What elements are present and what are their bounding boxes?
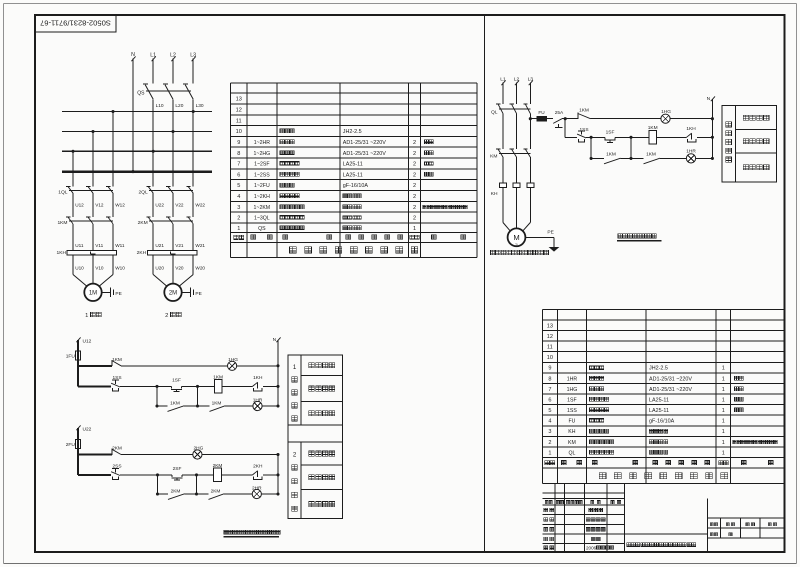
svg-text:U12: U12 [75,203,84,208]
svg-text:2KH: 2KH [137,250,147,256]
wire rung2 b [181,385,214,388]
svg-text:~: ~ [515,242,518,248]
svg-text:W21: W21 [195,243,205,248]
svg-text:1KM: 1KM [212,400,222,406]
svg-text:1M: 1M [89,291,97,297]
svg-text:2: 2 [413,183,416,189]
wire rung1 [121,365,228,367]
svg-text:2: 2 [293,452,297,459]
wire rung3 b [224,493,252,495]
wire 1 KH-motor [73,255,113,286]
svg-text:V22: V22 [175,203,184,208]
contactor 2KM [138,217,194,226]
svg-text:AD1-25/31 ~220V: AD1-25/31 ~220V [649,387,692,393]
svg-text:FU: FU [538,110,545,115]
bus N (thick) [62,170,212,172]
wire 1 branch feeders [73,112,113,187]
svg-text:8: 8 [237,151,240,157]
wire rung2 a [586,136,605,139]
wire rung1 to N [237,365,278,367]
svg-text:LA25-11: LA25-11 [649,408,669,414]
wire rung2 c [221,474,252,476]
svg-text:12: 12 [547,334,553,340]
wire rung3 to N [261,493,278,495]
wire L2 drop [171,56,175,186]
coil 1KM (fan) [648,125,658,144]
junction dots on buses [71,110,194,173]
svg-text:1: 1 [722,408,725,414]
wire 1 QL-KM [73,193,113,217]
svg-text:1HR: 1HR [686,149,696,155]
ground PE (2M) [182,288,202,297]
wire left bus 1 [77,340,79,386]
svg-text:1KM: 1KM [579,107,589,113]
labels U21 V21 W21 [155,243,205,248]
svg-text:1: 1 [293,364,297,371]
breaker 2QL [138,186,193,195]
svg-text:1QL: 1QL [58,189,68,195]
breaker QL (fan) [491,104,530,116]
labels U10 V10 W10 [75,265,125,270]
svg-text:2KM: 2KM [138,220,148,226]
wire rung3 a [621,157,644,159]
svg-text:3: 3 [237,205,240,211]
labels U20 V20 W20 [155,265,205,270]
coil 2KM [213,463,223,482]
svg-text:1SS: 1SS [567,408,577,414]
svg-text:PE: PE [547,230,553,236]
svg-text:1KM: 1KM [57,220,67,226]
svg-text:2: 2 [548,440,551,446]
drawing number box S0502-8231/9711-67 [35,15,116,32]
component table (fan control box) [542,310,784,484]
contact 1KM NC (HG rung) [578,107,591,119]
junction drops to rung3 [156,475,198,496]
wire left bus 2 [77,428,79,475]
start button 1SF (fan) [605,130,616,143]
svg-text:4: 4 [548,419,551,425]
svg-text:U12: U12 [83,339,92,345]
wire rung2 c [222,385,253,387]
node L1 [150,53,156,59]
svg-text:3: 3 [548,429,551,435]
wire rung3 to N [696,157,713,159]
svg-text:W20: W20 [195,265,205,270]
svg-text:2QL: 2QL [138,189,148,195]
svg-text:1SF: 1SF [172,378,181,384]
svg-text:LA25-11: LA25-11 [649,397,669,403]
node N [131,52,135,58]
svg-text:V21: V21 [175,243,184,248]
svg-text:JH2-2.5: JH2-2.5 [343,129,362,135]
svg-text:2: 2 [413,172,416,178]
svg-text:1~2KH: 1~2KH [254,194,270,200]
svg-text:11: 11 [236,118,242,124]
svg-text:U11: U11 [75,243,84,248]
svg-text:W10: W10 [115,265,125,270]
svg-text:1: 1 [722,366,725,372]
svg-text:2: 2 [413,216,416,222]
svg-text:1~2FU: 1~2FU [254,183,270,189]
svg-text:1SF: 1SF [606,130,615,136]
motor 2M [164,284,181,301]
wire rung3 to N [262,405,278,407]
svg-text:1FU: 1FU [66,354,76,360]
svg-text:U22: U22 [155,203,164,208]
svg-text:AD1-25/31 ~220V: AD1-25/31 ~220V [649,376,692,382]
svg-text:25A: 25A [555,110,564,116]
svg-text:2006: 2006 [586,546,597,551]
svg-text:1~2SS: 1~2SS [254,172,270,178]
wire 2 KM-KH [153,224,193,251]
svg-text:N: N [707,96,711,102]
labels U11 V11 W11 [75,243,125,248]
svg-text:7: 7 [237,162,240,168]
svg-text:QS: QS [137,91,145,97]
wire rung2 b [615,136,649,139]
wire 2 branch feeders [153,185,193,187]
label L20 [175,103,183,109]
svg-text:13: 13 [547,323,553,329]
disconnect switch QS [137,84,193,99]
wire 2 QL-KM [153,193,193,217]
svg-text:1: 1 [722,440,725,446]
wire rung2 to N [697,136,713,138]
svg-text:1HG: 1HG [661,109,671,115]
wire rung2 to N [263,474,278,476]
wire rung3 b [660,157,686,159]
svg-text:KM: KM [568,440,576,446]
node L1 (fan) [500,77,506,83]
svg-text:1KM: 1KM [648,125,658,131]
stop button 1SS (fan) [565,127,588,142]
svg-text:10: 10 [547,355,553,361]
fuse 1FU [66,351,81,360]
svg-text:2KH: 2KH [253,463,263,469]
wire rung1 [121,454,193,456]
lamp 2HG [193,446,204,460]
svg-text:LA25-11: LA25-11 [343,172,363,178]
svg-text:AD1-25/31 ~220V: AD1-25/31 ~220V [343,151,386,157]
wire rung3 b [225,405,253,407]
svg-text:12: 12 [236,108,242,114]
label 25A [555,110,564,116]
svg-text:LA25-11: LA25-11 [343,162,363,168]
title block [542,484,784,552]
node U22 [76,425,91,432]
thermal relay 2KH [137,250,197,256]
node U12 [76,337,91,344]
labels U22 V22 W22 [155,203,205,208]
start button 2SF [172,466,183,480]
svg-text:JH2-2.5: JH2-2.5 [649,366,668,372]
svg-text:U22: U22 [83,427,92,433]
wire fan KH-motor [503,188,530,231]
motor 1M [84,284,101,301]
caption pumps control schematic title [224,530,281,537]
svg-text:1SS: 1SS [112,375,121,381]
svg-text:W22: W22 [195,203,205,208]
wire rung2 to N [263,385,278,387]
svg-text:1: 1 [722,397,725,403]
lamp 1HG (fan) [661,109,671,123]
svg-text:5: 5 [237,183,240,189]
bus L1 phase [62,150,212,152]
thermal relay 1KH [56,250,116,256]
wire 2 KH-motor [153,255,193,286]
svg-text:S0502-8231/9711-67: S0502-8231/9711-67 [40,19,111,28]
stop button 1SS [78,375,122,391]
caption fan loads [491,250,549,254]
contactor 1KM [57,217,113,226]
svg-text:2KM: 2KM [112,446,122,452]
contact 1KM self-hold [157,400,184,411]
svg-text:2SF: 2SF [173,466,182,472]
indication boxes (pumps) [288,355,342,519]
wire L1 drop [152,56,156,186]
svg-text:PE: PE [115,291,121,297]
svg-text:2KM: 2KM [213,463,223,469]
svg-text:7: 7 [548,387,551,393]
thermal contact 1KH (fan) [686,126,696,142]
svg-text:FU: FU [568,419,575,425]
ground PE (1M) [102,288,122,297]
svg-text:1: 1 [722,450,725,456]
svg-text:2FU: 2FU [66,442,76,448]
wire rung1 to N [670,118,712,120]
svg-text:W12: W12 [115,203,125,208]
svg-text:6: 6 [548,397,551,403]
svg-text:1~2HR: 1~2HR [254,140,271,146]
svg-text:1: 1 [237,226,240,232]
svg-text:L2: L2 [170,53,176,59]
svg-text:4: 4 [237,194,240,200]
sheet divider line [483,15,485,552]
bus L3 phase [62,111,212,113]
svg-text:1~2KM: 1~2KM [254,205,271,211]
svg-text:1: 1 [722,419,725,425]
svg-text:9: 9 [237,140,240,146]
lamp 2HR [252,486,262,499]
svg-text:1HG: 1HG [567,387,578,393]
wire fan feeders top [501,80,533,104]
svg-text:1: 1 [413,226,416,232]
isolator blade after fuse [547,119,563,128]
svg-text:2HG: 2HG [193,446,203,452]
svg-text:V11: V11 [95,243,103,248]
svg-text:1: 1 [722,376,725,382]
thermal contact 2KH [253,463,263,479]
svg-text:1SF: 1SF [567,397,577,403]
svg-text:V20: V20 [175,265,184,270]
svg-text:L1: L1 [150,53,156,59]
svg-text:2M: 2M [169,291,177,297]
node N right bus 2 [276,453,279,496]
svg-text:1SS: 1SS [579,127,588,133]
svg-text:U10: U10 [75,265,84,270]
svg-text:1: 1 [722,429,725,435]
svg-text:L10: L10 [156,103,164,109]
caption pump 2 [165,312,181,318]
motor M (fan) [508,228,526,247]
svg-text:V12: V12 [95,203,104,208]
svg-text:U21: U21 [155,243,164,248]
wire rung3 a [185,493,209,495]
junction drops to rung3 [155,386,199,407]
node N (fan) [707,96,715,160]
wire 1 KM-KH [73,224,113,251]
contact 1KM self-hold (fan) [591,151,620,163]
svg-text:2: 2 [413,140,416,146]
svg-text:gF-16/10A: gF-16/10A [649,419,675,425]
svg-text:L3: L3 [190,53,196,59]
breaker 1QL [58,186,113,195]
svg-text:AD1-25/31 ~220V: AD1-25/31 ~220V [343,140,386,146]
contact 2KM run [209,488,225,499]
svg-text:1KM: 1KM [170,400,180,406]
node L2 (fan) [514,77,520,83]
svg-text:W11: W11 [115,243,125,248]
svg-text:1~2HG: 1~2HG [254,151,271,157]
svg-text:1KM: 1KM [606,151,616,157]
svg-text:2KM: 2KM [171,488,181,494]
junction control feed [562,117,578,137]
svg-text:V10: V10 [95,265,104,270]
svg-text:PE: PE [195,291,201,297]
fuse 2FU [66,440,81,449]
node L3 (fan) [528,77,534,83]
svg-text:1KM: 1KM [112,357,122,363]
caption pump 1 [85,312,101,318]
svg-text:2: 2 [413,151,416,157]
contact 2KM self-hold [158,488,185,499]
svg-text:L20: L20 [175,103,183,109]
svg-text:11: 11 [547,345,553,351]
node N right bus 1 [273,337,281,407]
wire fan QL-KM [503,114,530,150]
contact 1KM run [210,400,226,411]
wire rung3 a [184,405,210,407]
wire rung1 to N [202,454,278,456]
svg-text:1: 1 [85,313,88,319]
stop button 2SS [78,464,122,480]
svg-text:2: 2 [413,162,416,168]
svg-text:QL: QL [568,450,575,456]
svg-text:2: 2 [165,313,168,319]
svg-text:1KM: 1KM [213,374,223,380]
wire N drop [131,56,135,171]
svg-text:2HR: 2HR [252,486,262,492]
fuse FU 25A [529,110,547,121]
wire rung2 a [120,473,172,476]
svg-text:1HR: 1HR [253,398,263,404]
svg-text:5: 5 [548,408,551,414]
svg-text:1KM: 1KM [646,151,656,157]
contact 1KM run (fan) [644,151,661,163]
component table (pump control box) [231,83,477,258]
svg-text:2SS: 2SS [112,464,121,470]
contactor KM (fan) [490,149,530,159]
svg-text:6: 6 [237,172,240,178]
lamp 1HR [253,398,263,411]
svg-text:KH: KH [491,191,498,197]
wire rung2 b [182,473,214,476]
svg-text:1: 1 [722,387,725,393]
svg-text:1HR: 1HR [567,376,578,382]
svg-text:M: M [513,233,519,242]
svg-text:2: 2 [413,205,416,211]
thermal contact 1KH [253,375,263,391]
svg-text:1: 1 [548,450,551,456]
svg-text:L30: L30 [196,103,204,109]
lamp 1HG [228,357,239,371]
svg-text:13: 13 [236,97,242,103]
contact 1KM NC (HG rung) [78,357,122,366]
start button 1SF [171,378,182,392]
labels U12 V12 W12 [75,203,125,208]
coil 1KM [213,374,223,393]
svg-text:QS: QS [258,226,266,232]
node L2 [170,53,176,59]
node L3 [190,53,196,59]
svg-text:2: 2 [413,194,416,200]
wire L3 drop [192,56,196,186]
label L10 [156,103,164,109]
wire rung2 c [657,136,687,138]
svg-text:10: 10 [236,129,242,135]
svg-text:KM: KM [490,153,497,159]
bus L2 phase [62,131,212,133]
wire rung1 [591,118,661,120]
junction rung3 drops [590,137,633,160]
ground PE (fan) [525,230,559,252]
svg-text:9: 9 [548,366,551,372]
svg-text:2: 2 [237,216,240,222]
thermal relay KH (fan) [491,183,534,197]
wire fan KM-KH [503,157,530,183]
svg-text:1~2SF: 1~2SF [254,162,269,168]
svg-text:8: 8 [548,376,551,382]
lamp 1HR (fan) [686,149,696,163]
svg-text:U20: U20 [155,265,164,270]
svg-text:gF-16/10A: gF-16/10A [343,183,369,189]
svg-text:1HG: 1HG [228,357,238,363]
svg-text:KH: KH [568,429,575,435]
svg-text:2KM: 2KM [211,488,221,494]
contact 2KM NC (HG rung) [78,446,122,455]
svg-text:1KH: 1KH [253,375,263,381]
indication box (fan) [722,105,777,181]
caption fan control schematic title [617,234,662,241]
svg-text:1KH: 1KH [56,250,66,256]
svg-text:N: N [273,337,277,343]
svg-text:QL: QL [491,110,498,116]
svg-text:1KH: 1KH [686,126,696,132]
wire rung2 a [120,385,172,388]
label L30 [196,103,204,109]
svg-text:1~3QL: 1~3QL [254,216,270,222]
